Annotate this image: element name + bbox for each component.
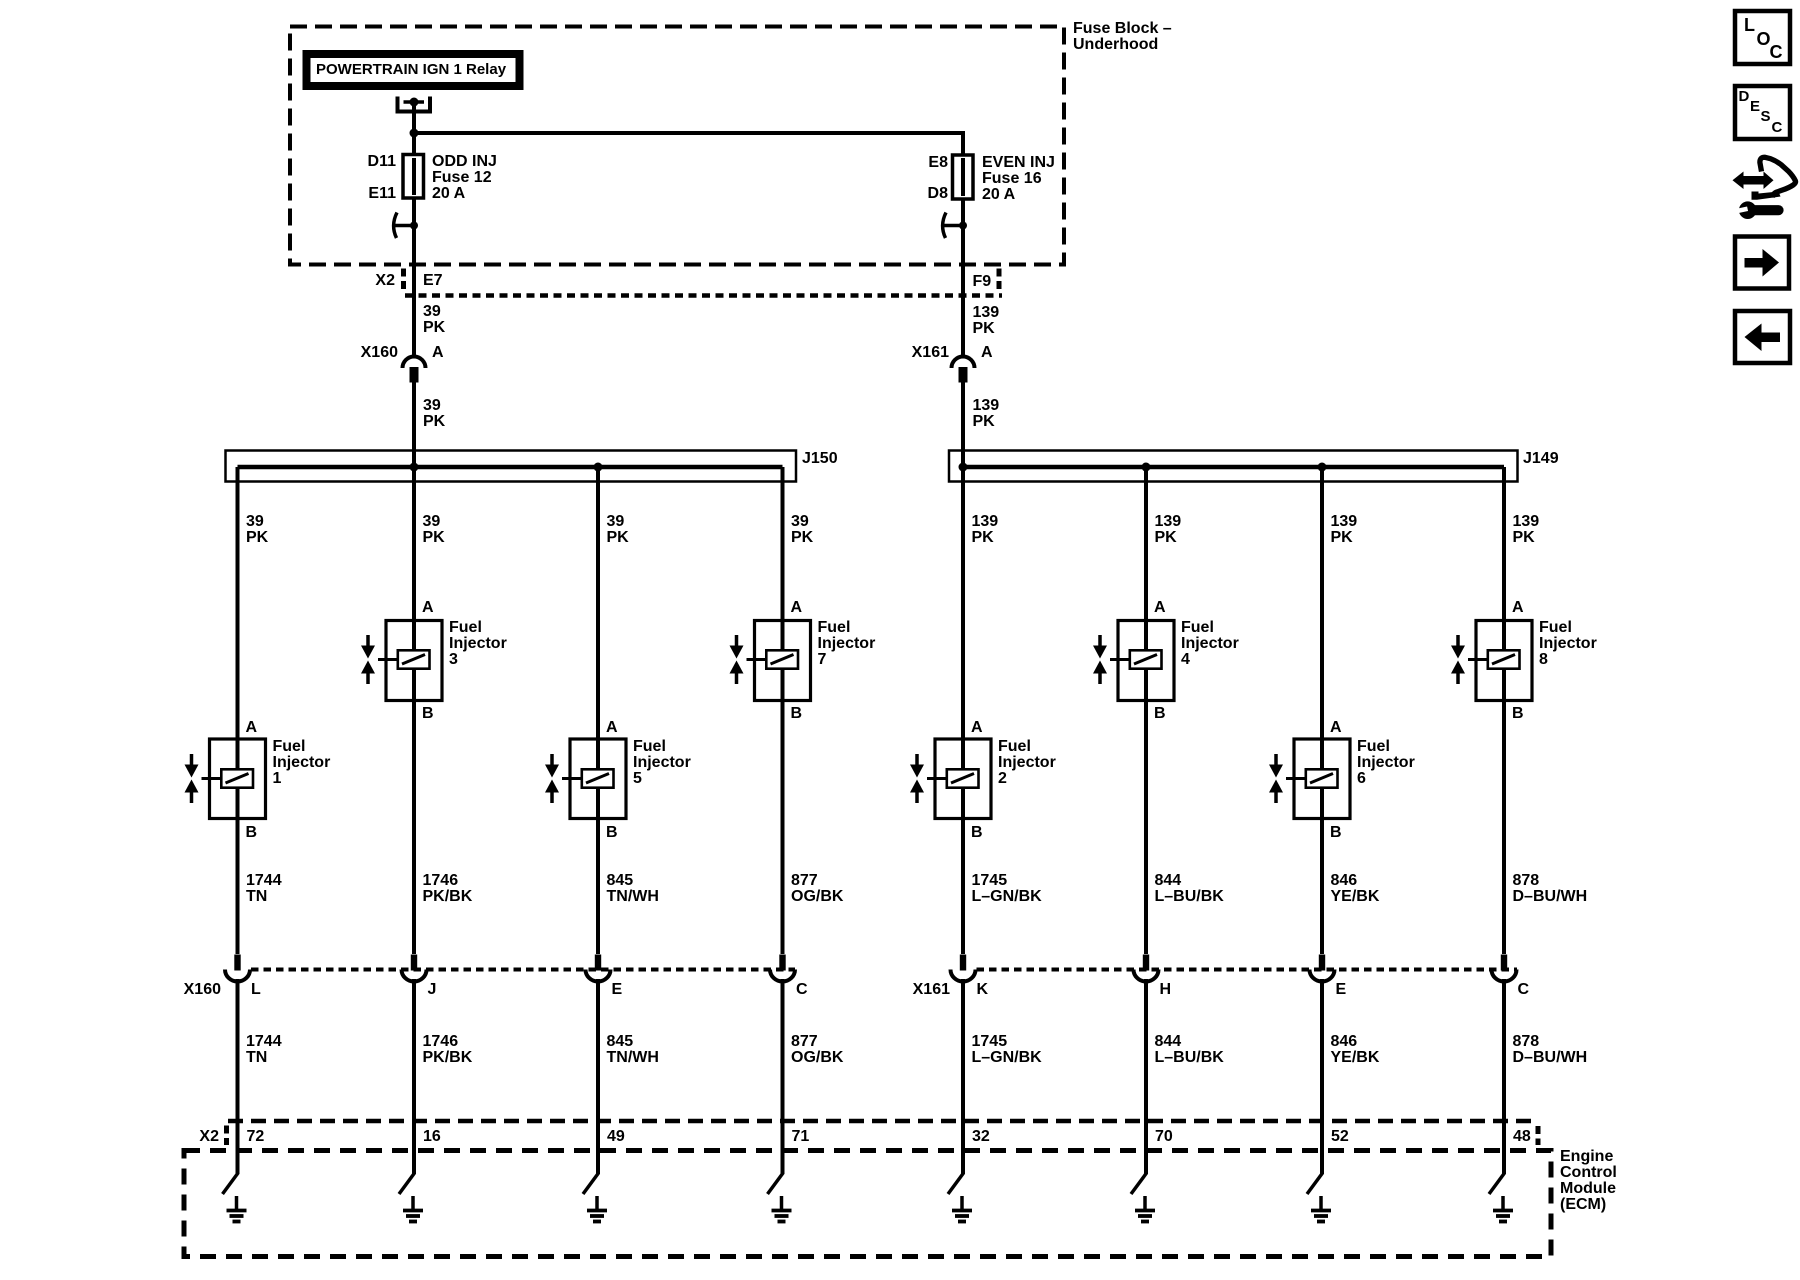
ECM driver switch 72 bbox=[223, 1173, 239, 1194]
ECM driver switch 32 bbox=[948, 1173, 964, 1194]
fuel injector 4 valve arrows bbox=[1093, 635, 1107, 684]
wire odd fuse to X2-E7 bbox=[412, 198, 416, 296]
label Fuel Injector 6 bbox=[1357, 739, 1415, 787]
ground symbol G4 bbox=[1135, 1196, 1155, 1222]
label injector 1 pin B bbox=[246, 825, 258, 841]
label injector 6 pin A bbox=[1330, 720, 1342, 736]
icon LOC box bbox=[1735, 11, 1790, 64]
splice J149 box bbox=[949, 451, 1518, 482]
label pin E8 bbox=[928, 155, 948, 171]
wire connector to ECM pin 72 bbox=[236, 979, 240, 1174]
label injector 7 pin A bbox=[791, 600, 803, 616]
label wire 139 PK column 5 bbox=[972, 514, 999, 546]
label pin E11 bbox=[368, 186, 396, 202]
label injector 2 pin B bbox=[971, 825, 983, 841]
label connector pin C column 4 bbox=[796, 982, 808, 998]
connector terminal pin E bbox=[1310, 955, 1335, 982]
wire feed to even fuse bbox=[414, 131, 963, 156]
wire fuel injector 6 pin B to connector bbox=[1320, 787, 1324, 955]
icon forward arrow box bbox=[1735, 237, 1789, 289]
wire splice to fuel injector 6 pin A bbox=[1320, 467, 1324, 769]
icon back arrow bbox=[1745, 324, 1781, 352]
wire X2-F9 to X161 bbox=[961, 296, 965, 358]
fuel injector 6 valve arrows bbox=[1269, 754, 1283, 803]
wire even fuse to X2-F9 bbox=[961, 198, 965, 296]
ground symbol G1 bbox=[227, 1196, 247, 1222]
wire fuel injector 2 pin B to connector bbox=[961, 787, 965, 955]
label wire 139 PK column 7 bbox=[1331, 514, 1358, 546]
fuel injector 2 valve arrows bbox=[910, 754, 924, 803]
label Fuel Injector 2 bbox=[998, 739, 1056, 787]
label wire 139 PK column 6 bbox=[1155, 514, 1182, 546]
label splice J149 bbox=[1523, 451, 1559, 467]
label wire 39 PK column 2 bbox=[423, 514, 445, 546]
icon DESC box bbox=[1735, 86, 1790, 139]
label ECM pin 16 bbox=[423, 1129, 441, 1145]
label wire 877 OG/BK upper bbox=[791, 873, 843, 905]
relay contact pin symbol bbox=[398, 97, 431, 112]
wire fuel injector 3 pin B to connector bbox=[412, 668, 416, 955]
label pin E7 bbox=[423, 273, 443, 289]
fuel injector 7 symbol bbox=[747, 621, 811, 701]
fuel injector 4 symbol bbox=[1110, 621, 1174, 701]
connector X2 bottom dotted line bbox=[228, 1119, 1532, 1124]
terminal clip at even fuse output bbox=[941, 213, 967, 239]
label wire 39 PK below X160 bbox=[423, 398, 445, 430]
label injector 4 pin B bbox=[1154, 706, 1166, 722]
label Fuse Block - Underhood bbox=[1073, 21, 1172, 53]
connector terminal pin J bbox=[402, 955, 427, 982]
connector terminal pin H bbox=[1134, 955, 1159, 982]
ECM driver switch 49 bbox=[583, 1173, 599, 1194]
fuel injector 8 valve arrows bbox=[1451, 635, 1465, 684]
wire connector to ECM pin 71 bbox=[781, 979, 785, 1174]
label wire 39 PK column 3 bbox=[607, 514, 629, 546]
label connector X2 top bbox=[375, 273, 395, 289]
label wire 1745 L–GN/BK lower bbox=[972, 1034, 1042, 1066]
relay POWERTRAIN IGN 1 Relay box bbox=[307, 54, 520, 86]
label POWERTRAIN IGN 1 Relay bbox=[316, 62, 506, 78]
inline connector X161 pin A bbox=[952, 357, 975, 383]
wire fuel injector 1 pin B to connector bbox=[236, 787, 240, 955]
label splice J150 bbox=[802, 451, 838, 467]
fuel injector 1 symbol bbox=[202, 739, 266, 819]
connector X2 row brackets and line bbox=[404, 269, 1003, 296]
label injector 8 pin A bbox=[1512, 600, 1524, 616]
terminal clip at odd fuse output bbox=[392, 213, 418, 239]
wire splice to fuel injector 7 pin A bbox=[781, 467, 785, 650]
connector terminal pin K bbox=[951, 955, 976, 982]
label injector 8 pin B bbox=[1512, 706, 1524, 722]
label ECM pin 72 bbox=[247, 1129, 265, 1145]
label connector pin C column 8 bbox=[1518, 982, 1530, 998]
label connector X161 bottom bbox=[913, 982, 950, 998]
label wire 877 OG/BK lower bbox=[791, 1034, 843, 1066]
ground symbol G8 bbox=[1493, 1196, 1513, 1222]
label Fuel Injector 4 bbox=[1181, 620, 1239, 668]
label wire 1746 PK/BK lower bbox=[423, 1034, 473, 1066]
wire connector to ECM pin 70 bbox=[1144, 979, 1148, 1174]
ECM driver switch 48 bbox=[1489, 1173, 1505, 1194]
label Engine Control Module ECM bbox=[1560, 1149, 1617, 1213]
label ODD INJ Fuse 12 20 A bbox=[432, 154, 497, 202]
label wire 846 YE/BK lower bbox=[1331, 1034, 1380, 1066]
label connector X160 bottom bbox=[184, 982, 221, 998]
label wire 39 PK upper bbox=[423, 304, 445, 336]
connector terminal pin E bbox=[586, 955, 611, 982]
icon wrench bbox=[1734, 201, 1778, 219]
fuel injector 8 symbol bbox=[1468, 621, 1532, 701]
label Fuel Injector 1 bbox=[273, 739, 331, 787]
wire splice to fuel injector 8 pin A bbox=[1502, 467, 1506, 650]
connector X160 harness dotted line bbox=[251, 968, 795, 972]
label Fuel Injector 5 bbox=[633, 739, 691, 787]
label connector pin J column 2 bbox=[428, 982, 437, 998]
label pin D8 bbox=[928, 186, 948, 202]
wire connector to ECM pin 16 bbox=[412, 979, 416, 1174]
wire fuel injector 4 pin B to connector bbox=[1144, 668, 1148, 955]
ground symbol G5 bbox=[587, 1196, 607, 1222]
connector terminal pin C bbox=[770, 955, 795, 982]
wire relay to junction bbox=[412, 104, 416, 155]
label connector pin H column 6 bbox=[1160, 982, 1172, 998]
label ECM pin 70 bbox=[1155, 1129, 1173, 1145]
label wire 845 TN/WH lower bbox=[607, 1034, 659, 1066]
label connector pin K column 5 bbox=[977, 982, 989, 998]
fuse F12 ODD INJ body bbox=[403, 150, 424, 202]
wire splice to fuel injector 4 pin A bbox=[1144, 467, 1148, 650]
label injector 7 pin B bbox=[791, 706, 803, 722]
label Fuel Injector 3 bbox=[449, 620, 507, 668]
label wire 39 PK column 4 bbox=[791, 514, 813, 546]
label X161 pin A bbox=[981, 345, 993, 361]
label connector pin E column 3 bbox=[612, 982, 623, 998]
label injector 4 pin A bbox=[1154, 600, 1166, 616]
icon forward arrow bbox=[1745, 249, 1780, 277]
label connector X161 bbox=[912, 345, 949, 361]
ECM driver switch 16 bbox=[399, 1173, 415, 1194]
wire fuel injector 8 pin B to connector bbox=[1502, 668, 1506, 955]
label injector 3 pin A bbox=[422, 600, 434, 616]
label connector X2 bottom bbox=[199, 1129, 219, 1145]
label ECM pin 71 bbox=[792, 1129, 810, 1145]
fuel injector 7 valve arrows bbox=[730, 635, 744, 684]
label wire 1744 TN upper bbox=[246, 873, 282, 905]
label wire 139 PK upper bbox=[973, 305, 1000, 337]
connector terminal pin C bbox=[1492, 955, 1517, 982]
splice J150 box bbox=[226, 451, 797, 482]
label injector 2 pin A bbox=[971, 720, 983, 736]
fuse F16 EVEN INJ body bbox=[953, 150, 974, 202]
label injector 3 pin B bbox=[422, 706, 434, 722]
ground symbol G3 bbox=[403, 1196, 423, 1222]
wire connector to ECM pin 48 bbox=[1502, 979, 1506, 1174]
label wire 1746 PK/BK upper bbox=[423, 873, 473, 905]
ground symbol G2 bbox=[952, 1196, 972, 1222]
label wire 139 PK below X161 bbox=[973, 398, 1000, 430]
icon LOC letters bbox=[1744, 17, 1755, 33]
fuel injector 2 symbol bbox=[927, 739, 991, 819]
label wire 39 PK column 1 bbox=[246, 514, 268, 546]
label injector 6 pin B bbox=[1330, 825, 1342, 841]
wire splice to fuel injector 5 pin A bbox=[596, 467, 600, 769]
label wire 845 TN/WH upper bbox=[607, 873, 659, 905]
splice J150 bus bbox=[238, 463, 783, 472]
label wire 1745 L–GN/BK upper bbox=[972, 873, 1042, 905]
splice J149 bus bbox=[959, 463, 1505, 472]
label injector 5 pin A bbox=[606, 720, 618, 736]
ground symbol G7 bbox=[772, 1196, 792, 1222]
inline connector X160 pin A bbox=[403, 357, 426, 383]
label X160 pin A bbox=[432, 345, 444, 361]
wire X161 to splice J149 bbox=[961, 382, 965, 467]
connector X2 bottom brackets bbox=[227, 1126, 1539, 1146]
connector terminal pin L bbox=[225, 955, 250, 982]
label wire 844 L–BU/BK upper bbox=[1155, 873, 1224, 905]
label pin D11 bbox=[368, 154, 396, 170]
label ECM pin 49 bbox=[607, 1129, 625, 1145]
label connector pin L column 1 bbox=[251, 982, 261, 998]
label Fuel Injector 8 bbox=[1539, 620, 1597, 668]
label connector pin E column 7 bbox=[1336, 982, 1347, 998]
node feed junction bbox=[410, 129, 419, 138]
icon back arrow box bbox=[1735, 311, 1790, 363]
label ECM pin 52 bbox=[1331, 1129, 1349, 1145]
engine control module ECM dashed box bbox=[184, 1151, 1551, 1257]
wire splice to fuel injector 3 pin A bbox=[412, 467, 416, 650]
label injector 5 pin B bbox=[606, 825, 618, 841]
label Fuel Injector 7 bbox=[818, 620, 876, 668]
label ECM pin 32 bbox=[972, 1129, 990, 1145]
fuel injector 1 valve arrows bbox=[185, 754, 199, 803]
fuel injector 5 valve arrows bbox=[545, 754, 559, 803]
wire fuel injector 5 pin B to connector bbox=[596, 787, 600, 955]
fuse block underhood dashed box bbox=[290, 27, 1064, 265]
fuel injector 6 symbol bbox=[1286, 739, 1350, 819]
ECM driver switch 71 bbox=[768, 1173, 784, 1194]
label wire 878 D–BU/WH lower bbox=[1513, 1034, 1588, 1066]
wire connector to ECM pin 32 bbox=[961, 979, 965, 1174]
wire splice to fuel injector 2 pin A bbox=[961, 467, 965, 769]
label wire 1744 TN lower bbox=[246, 1034, 282, 1066]
label wire 846 YE/BK upper bbox=[1331, 873, 1380, 905]
ground symbol G6 bbox=[1311, 1196, 1331, 1222]
wire splice to fuel injector 1 pin A bbox=[236, 467, 240, 769]
label pin F9 bbox=[973, 274, 992, 290]
wire X2-E7 to X160 bbox=[412, 296, 416, 358]
icon jump arrows and wrench bbox=[1733, 157, 1796, 200]
wire connector to ECM pin 52 bbox=[1320, 979, 1324, 1174]
ECM driver switch 70 bbox=[1131, 1173, 1147, 1194]
wire connector to ECM pin 49 bbox=[596, 979, 600, 1174]
connector X161 harness dotted line bbox=[977, 968, 1518, 972]
label wire 844 L–BU/BK lower bbox=[1155, 1034, 1224, 1066]
label ECM pin 48 bbox=[1513, 1129, 1531, 1145]
label wire 139 PK column 8 bbox=[1513, 514, 1540, 546]
ECM driver switch 52 bbox=[1307, 1173, 1323, 1194]
fuel injector 3 symbol bbox=[378, 621, 442, 701]
label connector X160 bbox=[361, 345, 398, 361]
wire fuel injector 7 pin B to connector bbox=[781, 668, 785, 955]
label EVEN INJ Fuse 16 20 A bbox=[982, 155, 1055, 203]
fuel injector 5 symbol bbox=[562, 739, 626, 819]
label wire 878 D–BU/WH upper bbox=[1513, 873, 1588, 905]
icon DESC letters bbox=[1739, 89, 1750, 105]
label injector 1 pin A bbox=[246, 720, 258, 736]
fuel injector 3 valve arrows bbox=[361, 635, 375, 684]
wire X160 to splice J150 bbox=[412, 382, 416, 467]
